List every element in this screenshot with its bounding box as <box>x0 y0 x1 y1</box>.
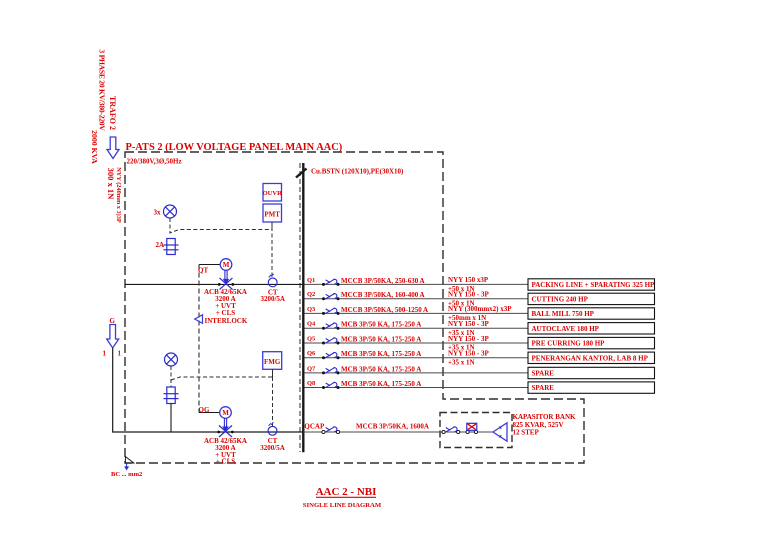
svg-text:CUTTING 240 HP: CUTTING 240 HP <box>532 295 589 303</box>
svg-text:MCB 3P/50 KA, 175-250 A: MCB 3P/50 KA, 175-250 A <box>341 321 421 329</box>
svg-text:12 STEP: 12 STEP <box>513 429 540 437</box>
svg-text:Q2: Q2 <box>307 291 315 298</box>
svg-text:PRE CURRING 180 HP: PRE CURRING 180 HP <box>532 340 606 348</box>
svg-text:PMT: PMT <box>264 211 280 219</box>
svg-text:1: 1 <box>103 350 107 358</box>
svg-text:2A: 2A <box>156 241 165 249</box>
svg-text:SPARE: SPARE <box>532 370 555 378</box>
svg-text:AAC 2 - NBI: AAC 2 - NBI <box>316 486 377 498</box>
svg-text:220/380V,3Ø,50Hz: 220/380V,3Ø,50Hz <box>127 158 182 166</box>
svg-text:+ CLS: + CLS <box>216 458 235 466</box>
svg-text:Q1: Q1 <box>307 277 315 284</box>
svg-text:Q4: Q4 <box>307 321 316 328</box>
svg-text:Q8: Q8 <box>307 380 316 387</box>
svg-text:1: 1 <box>118 350 122 358</box>
svg-text:MCCB 3P/50KA, 500-1250 A: MCCB 3P/50KA, 500-1250 A <box>341 306 428 314</box>
svg-text:BALL MILL 750 HP: BALL MILL 750 HP <box>532 310 595 318</box>
svg-text:KAPASITOR BANK: KAPASITOR BANK <box>513 413 577 421</box>
svg-text:FMG: FMG <box>264 358 281 366</box>
svg-text:SINGLE LINE DIAGRAM: SINGLE LINE DIAGRAM <box>303 502 382 509</box>
svg-text:3200/5A: 3200/5A <box>260 444 285 452</box>
svg-text:NYY 150 - 3P: NYY 150 - 3P <box>448 335 489 343</box>
svg-text:OUVR: OUVR <box>263 190 282 197</box>
svg-text:3x: 3x <box>154 209 162 217</box>
svg-text:Q3: Q3 <box>307 306 316 313</box>
svg-text:PACKING LINE + SPARATING 325 H: PACKING LINE + SPARATING 325 HP <box>532 281 656 289</box>
svg-text:M: M <box>222 409 229 417</box>
svg-text:NYY 150 - 3P: NYY 150 - 3P <box>448 320 489 328</box>
svg-text:QG: QG <box>199 406 210 414</box>
svg-text:MCB 3P/50 KA, 175-250 A: MCB 3P/50 KA, 175-250 A <box>341 365 421 373</box>
svg-text:TRAFO 2: TRAFO 2 <box>108 96 117 130</box>
svg-text:3200/5A: 3200/5A <box>260 295 285 303</box>
svg-text:MCCB 3P/50KA, 250-630 A: MCCB 3P/50KA, 250-630 A <box>341 277 425 285</box>
svg-text:M: M <box>223 261 230 269</box>
svg-text:SPARE: SPARE <box>532 384 555 392</box>
svg-text:NYY 150 - 3P: NYY 150 - 3P <box>448 291 489 299</box>
svg-text:PENERANGAN KANTOR, LAB 8 HP: PENERANGAN KANTOR, LAB 8 HP <box>532 354 649 362</box>
svg-text:NYY (300mmx2) x3P: NYY (300mmx2) x3P <box>448 305 512 313</box>
svg-text:300 x 1N: 300 x 1N <box>106 168 116 201</box>
svg-text:NYY 150 - 3P: NYY 150 - 3P <box>448 350 489 358</box>
svg-text:BC ... mm2: BC ... mm2 <box>111 471 142 478</box>
svg-text:+ CLS: + CLS <box>216 309 235 317</box>
svg-text:825 KVAR, 525V: 825 KVAR, 525V <box>513 421 564 429</box>
svg-text:P-ATS 2 (LOW VOLTAGE PANEL MAI: P-ATS 2 (LOW VOLTAGE PANEL MAIN AAC) <box>126 142 343 153</box>
svg-text:3 PHASE 20 KV/380-220V: 3 PHASE 20 KV/380-220V <box>98 49 107 131</box>
svg-text:AUTOCLAVE 180 HP: AUTOCLAVE 180 HP <box>532 325 600 333</box>
svg-text:Cu.BSTN (120X10),PE(30X10): Cu.BSTN (120X10),PE(30X10) <box>311 168 404 176</box>
svg-text:MCCB 3P/50KA, 160-400 A: MCCB 3P/50KA, 160-400 A <box>341 291 425 299</box>
svg-text:2000 KVA: 2000 KVA <box>90 130 99 164</box>
svg-text:+35 x 1N: +35 x 1N <box>448 358 475 366</box>
svg-text:Q7: Q7 <box>307 365 316 372</box>
svg-text:INTERLOCK: INTERLOCK <box>205 317 248 325</box>
svg-text:G: G <box>110 317 116 325</box>
svg-text:QT: QT <box>198 266 208 274</box>
svg-text:Q5: Q5 <box>307 335 316 342</box>
svg-text:Q6: Q6 <box>307 350 316 357</box>
svg-text:MCB 3P/50 KA, 175-250 A: MCB 3P/50 KA, 175-250 A <box>341 350 421 358</box>
svg-text:MCCB 3P/50KA, 1600A: MCCB 3P/50KA, 1600A <box>356 423 429 431</box>
svg-text:MCB 3P/50 KA, 175-250 A: MCB 3P/50 KA, 175-250 A <box>341 380 421 388</box>
svg-text:QCAP: QCAP <box>304 423 325 431</box>
svg-text:MCB 3P/50 KA, 175-250 A: MCB 3P/50 KA, 175-250 A <box>341 335 421 343</box>
svg-text:NYY 150 x3P: NYY 150 x3P <box>448 276 489 284</box>
